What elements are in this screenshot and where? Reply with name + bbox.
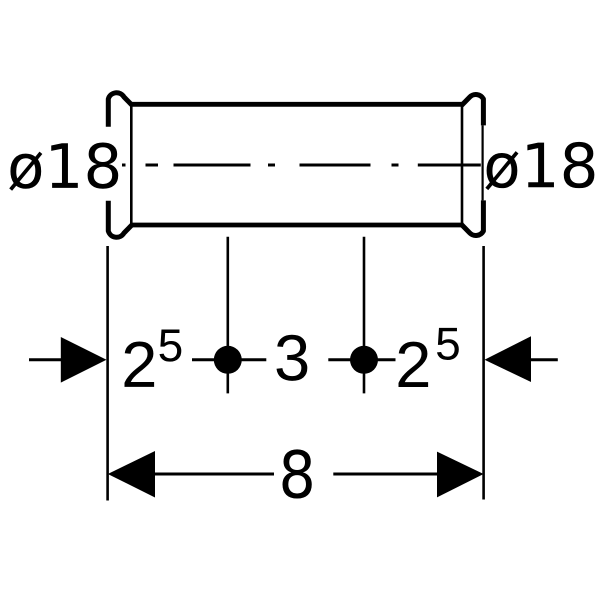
- label o18 left: [9, 142, 118, 190]
- dimension point dot left: [214, 346, 242, 374]
- row2 right arrow: [437, 452, 484, 498]
- right press bead upper part: [462, 95, 484, 126]
- right extension line upper segment: [482, 125, 484, 200]
- left extension line: [106, 246, 109, 501]
- coupling body bottom edge: [131, 223, 464, 228]
- coupling body left edge: [130, 104, 133, 227]
- row1 right arrow: [485, 336, 532, 382]
- coupling body right edge: [461, 104, 464, 227]
- right press bead lower part: [462, 200, 484, 235]
- dimension point dot right: [350, 346, 378, 374]
- coupling body top edge: [131, 102, 464, 107]
- dimension point stem right: [363, 237, 366, 394]
- right extension line lower segment: [482, 246, 485, 500]
- label 2^5 right: [399, 328, 459, 387]
- label 3: [277, 335, 308, 381]
- left press bead lower part: [108, 201, 132, 237]
- left press bead upper part: [108, 93, 132, 127]
- row2 dimension line segments: [155, 473, 437, 476]
- row2 left arrow: [108, 451, 155, 498]
- label o18 right: [485, 142, 594, 190]
- label 8: [283, 449, 312, 498]
- dimension point stem left: [227, 237, 230, 394]
- centerline dash-dot: [122, 164, 481, 167]
- row1 dimension line segments: [29, 358, 558, 361]
- label 2^5 left: [125, 330, 182, 387]
- row1 left arrow: [61, 337, 107, 383]
